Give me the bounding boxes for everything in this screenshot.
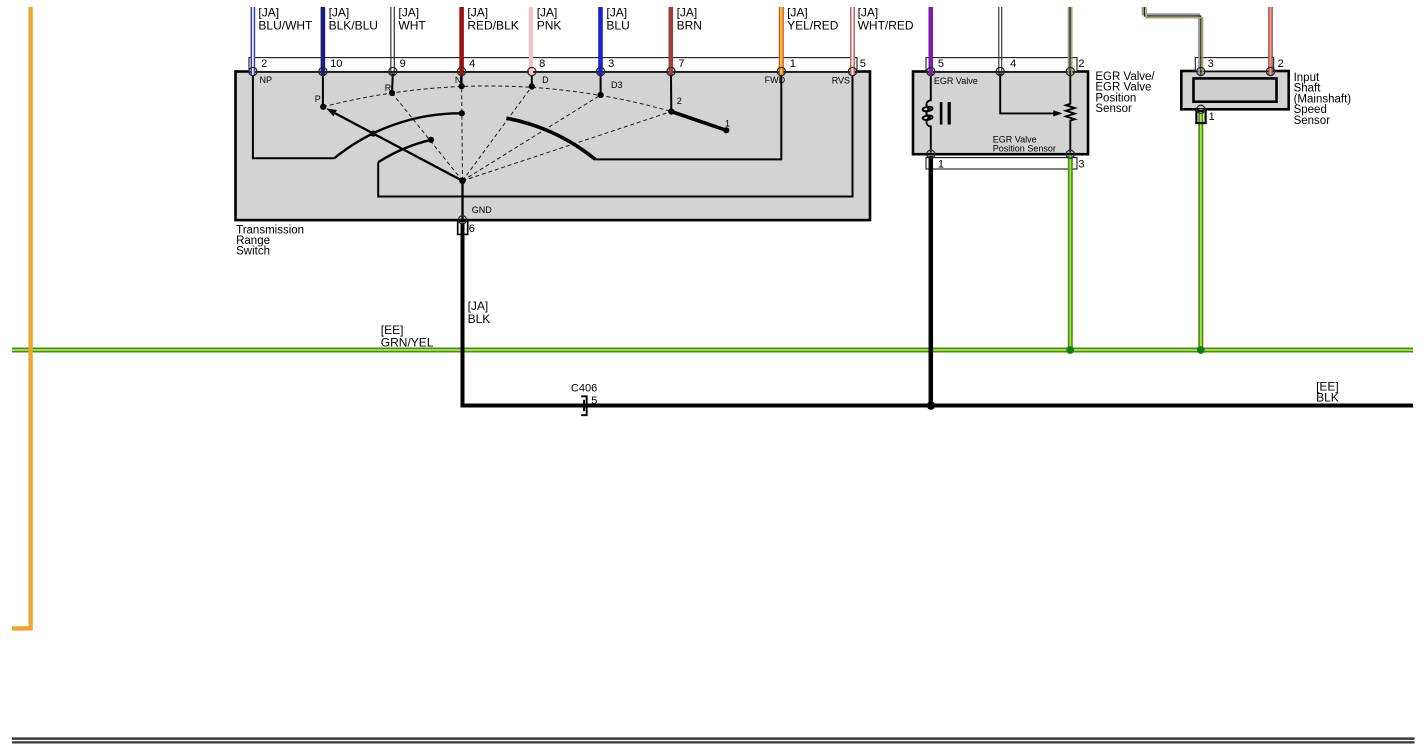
inline connector C406 pin 5 bbox=[581, 396, 587, 415]
svg-text:6: 6 bbox=[469, 223, 475, 235]
wire pin10 to P contact bbox=[322, 74, 324, 107]
input shaft sensor connector strip bbox=[1195, 58, 1273, 71]
wire pin2 NP contact path bbox=[253, 74, 335, 159]
svg-text:FWD: FWD bbox=[765, 75, 786, 85]
contact bar 2-1 bbox=[671, 112, 726, 131]
wire WHT EGR pin4 bbox=[999, 7, 1002, 76]
orange wire left bbox=[12, 7, 31, 628]
svg-text:D3: D3 bbox=[611, 80, 623, 90]
svg-text:8: 8 bbox=[539, 58, 545, 70]
svg-text:RVS: RVS bbox=[832, 75, 850, 85]
wire pin3 to D3 contact bbox=[600, 74, 602, 96]
switch dashed contact arc bbox=[323, 86, 671, 112]
svg-text:3: 3 bbox=[1078, 158, 1084, 170]
device labels bbox=[236, 71, 1351, 258]
BLK wire from EGR pin1 bbox=[929, 156, 934, 406]
wire pin5 RVS path bbox=[378, 74, 852, 197]
input shaft pin1 connector bbox=[1196, 111, 1205, 123]
wiper arm to P bbox=[335, 113, 462, 180]
input shaft sensor inner element bbox=[1194, 78, 1277, 101]
svg-text:N: N bbox=[455, 75, 462, 85]
EGR position sensor potentiometer bbox=[1066, 74, 1075, 153]
svg-text:10: 10 bbox=[330, 58, 342, 70]
EGR connector strip bottom bbox=[926, 158, 1077, 169]
junction dot BLK bus bbox=[927, 401, 936, 410]
wire [JA] BLK/BLU pin10 bbox=[321, 7, 326, 76]
wire GRY/YEL input shaft pin3 polyline bbox=[1143, 7, 1203, 76]
svg-text:EGR Valve: EGR Valve bbox=[934, 76, 978, 86]
wiper to GND stub bbox=[461, 181, 463, 223]
svg-text:BLU/WHT: BLU/WHT bbox=[258, 18, 313, 32]
svg-text:2: 2 bbox=[677, 96, 682, 106]
GRN/YEL wire from input shaft pin1 bbox=[1198, 109, 1203, 350]
NP contact bar arc bbox=[334, 113, 461, 158]
svg-text:3: 3 bbox=[608, 58, 614, 70]
FWD contact bar arc bbox=[506, 118, 595, 159]
svg-text:1: 1 bbox=[1209, 111, 1215, 123]
svg-text:4: 4 bbox=[1010, 58, 1016, 70]
wire pin1 FWD path bbox=[595, 74, 781, 160]
junction dot green 2 bbox=[1197, 346, 1205, 354]
pin number labels bbox=[261, 58, 1284, 407]
svg-text:9: 9 bbox=[400, 58, 406, 70]
BLK wire from switch GND to [EE] BLK bus bbox=[458, 221, 468, 234]
svg-text:C406: C406 bbox=[571, 383, 597, 395]
RVS contact bar arc bbox=[378, 140, 431, 162]
svg-text:4: 4 bbox=[469, 58, 475, 70]
wire [JA] BLU pin3 bbox=[598, 7, 603, 76]
svg-text:Switch: Switch bbox=[236, 246, 270, 258]
wire GRY/YEL EGR pin2 bbox=[1069, 7, 1072, 76]
wire pin7 to 2 contact bbox=[670, 74, 672, 112]
svg-text:BRN: BRN bbox=[677, 18, 702, 32]
input shaft speed sensor body bbox=[1181, 71, 1288, 109]
pin circles bbox=[249, 67, 1275, 224]
wire pin9 to R contact bbox=[391, 74, 394, 94]
page border double line bbox=[12, 737, 1415, 740]
wiper arrowhead bbox=[326, 108, 337, 116]
svg-text:7: 7 bbox=[678, 58, 684, 70]
svg-text:5: 5 bbox=[591, 395, 597, 407]
svg-text:1: 1 bbox=[790, 58, 796, 70]
wire [JA] RED/BLK pin4 bbox=[459, 7, 464, 76]
svg-text:5: 5 bbox=[860, 58, 866, 70]
EGR pot wiper from pin4 bbox=[1000, 74, 1053, 114]
svg-text:GND: GND bbox=[472, 205, 493, 215]
wire [JA] WHT pin9 bbox=[391, 7, 394, 76]
svg-text:1: 1 bbox=[938, 158, 944, 170]
svg-text:Position Sensor: Position Sensor bbox=[993, 143, 1056, 153]
svg-text:2: 2 bbox=[261, 58, 267, 70]
svg-text:BLU: BLU bbox=[606, 18, 629, 32]
EGR valve body bbox=[913, 72, 1088, 155]
svg-text:Sensor: Sensor bbox=[1095, 103, 1132, 115]
svg-text:R: R bbox=[385, 83, 392, 93]
svg-text:P: P bbox=[315, 94, 321, 104]
svg-text:WHT/RED: WHT/RED bbox=[858, 18, 914, 32]
wire pin8 to D contact bbox=[531, 74, 533, 87]
wire RED input shaft pin2 bbox=[1269, 7, 1272, 76]
switch dashed position radials P R N D D3 2 bbox=[323, 86, 671, 181]
svg-text:BLK/BLU: BLK/BLU bbox=[329, 18, 378, 32]
svg-text:5: 5 bbox=[938, 58, 944, 70]
EGR internal labels bbox=[934, 76, 1056, 153]
svg-text:PNK: PNK bbox=[537, 18, 562, 32]
EGR connector strip top bbox=[926, 58, 1077, 72]
svg-text:WHT: WHT bbox=[398, 18, 426, 32]
svg-text:GRN/YEL: GRN/YEL bbox=[381, 336, 434, 350]
switch connector strip top bbox=[249, 58, 857, 72]
svg-text:BLK: BLK bbox=[1316, 391, 1339, 405]
svg-text:2: 2 bbox=[1278, 58, 1284, 70]
EGR solenoid coil bbox=[922, 74, 933, 153]
svg-text:2: 2 bbox=[1078, 58, 1084, 70]
svg-text:Sensor: Sensor bbox=[1294, 115, 1331, 127]
GRN/YEL bus wire [EE] bbox=[12, 348, 1413, 353]
transmission range switch body bbox=[236, 72, 871, 221]
wire pin4 to N contact bbox=[461, 74, 463, 87]
svg-text:NP: NP bbox=[260, 75, 273, 85]
switch internal labels bbox=[260, 75, 851, 215]
svg-text:BLK: BLK bbox=[468, 312, 491, 326]
svg-text:3: 3 bbox=[1208, 58, 1214, 70]
wire [JA] PNK pin8 bbox=[529, 7, 533, 76]
junction dot green 1 bbox=[1066, 346, 1074, 354]
wire [JA] YEL/RED pin1 bbox=[779, 7, 784, 76]
switch junction dots bbox=[320, 83, 729, 184]
svg-text:D: D bbox=[542, 75, 549, 85]
GRN/YEL wire from EGR pin3 bbox=[1068, 156, 1073, 350]
EGR valve bars bbox=[940, 102, 943, 125]
wire [JA] BRN pin7 bbox=[668, 7, 673, 76]
svg-text:1: 1 bbox=[725, 118, 730, 128]
wire [JA] WHT/RED pin5 bbox=[851, 7, 854, 76]
svg-text:RED/BLK: RED/BLK bbox=[467, 18, 518, 32]
wire PUR EGR pin5 bbox=[928, 7, 933, 76]
wire [JA] BLU/WHT pin2 bbox=[251, 7, 254, 76]
svg-text:YEL/RED: YEL/RED bbox=[787, 18, 839, 32]
wire colour labels [JA] bbox=[258, 6, 1338, 405]
